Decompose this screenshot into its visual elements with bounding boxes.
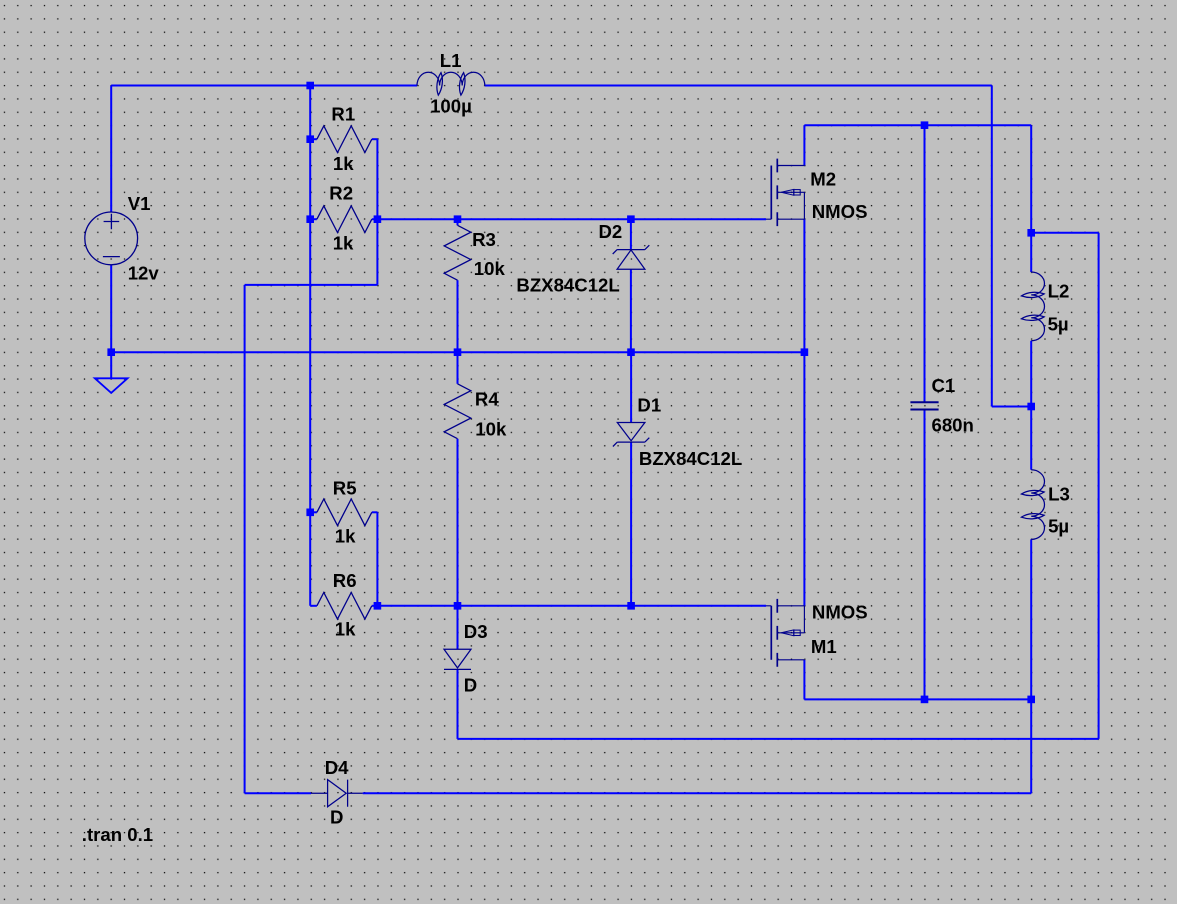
svg-text:D: D	[330, 807, 343, 828]
wire V1 top lead	[110, 86, 112, 213]
wire C1 bottom lead	[924, 410, 926, 700]
wire top rail from V1 to L1	[111, 85, 417, 87]
ground	[95, 378, 128, 393]
diode D4	[311, 780, 363, 807]
wire L3 bottom lead	[1030, 539, 1032, 699]
svg-text:R3: R3	[472, 229, 496, 250]
wire R3 bottom lead	[457, 280, 459, 352]
wire bottom rail M1 to tank	[804, 698, 1031, 700]
svg-text:R1: R1	[331, 103, 355, 124]
svg-text:.tran 0.1: .tran 0.1	[82, 824, 153, 845]
svg-text:D2: D2	[599, 221, 623, 242]
resistor R3	[444, 225, 471, 280]
inductor L2	[1021, 272, 1044, 341]
wire gate row lower R6 to M1 gate	[377, 605, 766, 607]
wire V1 bottom lead	[110, 265, 112, 352]
svg-text:680n: 680n	[932, 415, 974, 436]
svg-text:5µ: 5µ	[1048, 314, 1069, 335]
voltage source V1	[85, 212, 138, 265]
wire R6 left lead	[310, 605, 317, 607]
svg-text:NMOS: NMOS	[812, 201, 868, 222]
wire mid rail	[111, 351, 804, 353]
wire M2 drain riser	[803, 125, 805, 165]
svg-text:M1: M1	[811, 636, 837, 657]
node mid rail D2-D1	[627, 348, 635, 356]
wire D4 row right	[363, 792, 1031, 794]
svg-text:1k: 1k	[333, 233, 354, 254]
wire top rail from L1 to right corner	[485, 85, 992, 87]
svg-text:5µ: 5µ	[1048, 516, 1069, 537]
nmos M1	[766, 599, 804, 667]
inductor L3	[1021, 470, 1044, 540]
wire R4 top lead	[457, 352, 459, 384]
wire feedback right riser	[1098, 233, 1100, 739]
svg-text:L3: L3	[1048, 484, 1070, 505]
wire tank column L2 L3	[1030, 125, 1032, 272]
node mid rail V1	[107, 348, 115, 356]
node D1 bottom	[627, 602, 635, 610]
svg-text:R6: R6	[333, 570, 357, 591]
node R2 right	[374, 215, 382, 223]
svg-text:12v: 12v	[128, 262, 160, 283]
wire R4 bottom lead	[457, 439, 459, 606]
wire R5 left lead	[310, 511, 317, 513]
node C1 top	[921, 121, 929, 129]
svg-text:1k: 1k	[333, 153, 354, 174]
wire D1 bottom lead	[630, 442, 632, 606]
node L2 top	[1027, 229, 1035, 237]
diode D3	[444, 649, 471, 669]
wire M1 source drop	[803, 660, 805, 700]
wire R1 right to R2 right	[376, 139, 378, 219]
node R5 left	[306, 509, 314, 517]
wire M2 drain row	[804, 124, 1031, 126]
resistor R4	[444, 384, 471, 439]
zener diode D1	[613, 423, 649, 447]
svg-text:L1: L1	[440, 50, 462, 71]
node L3 bottom	[1027, 696, 1035, 704]
inductor L1	[417, 72, 485, 95]
nmos M2	[766, 159, 804, 227]
wire D4 riser	[1030, 699, 1032, 793]
svg-text:M2: M2	[810, 168, 836, 189]
svg-text:L2: L2	[1048, 281, 1070, 302]
svg-text:D3: D3	[464, 621, 488, 642]
resistor R1	[317, 126, 372, 153]
wire R1 right lead	[372, 138, 378, 140]
wire ground stub	[110, 352, 112, 378]
wire D1 top lead	[630, 352, 632, 422]
node top rail / bias column	[306, 82, 314, 90]
wire long left drop to D4	[244, 285, 246, 793]
svg-text:D1: D1	[637, 395, 661, 416]
wire R5 right lead	[372, 511, 378, 513]
wire feedback bottom	[458, 738, 1099, 740]
resistor R5	[317, 499, 372, 526]
wire D2 top lead	[630, 219, 632, 249]
svg-text:1k: 1k	[335, 619, 356, 640]
wire L2 to L3	[1030, 341, 1032, 470]
wire feedback top link	[1031, 232, 1098, 234]
node R6 right	[374, 602, 382, 610]
node mid rail M2-M1	[801, 348, 809, 356]
wire gate row upper R2 to M2 gate	[377, 218, 766, 220]
node R3 top	[454, 215, 462, 223]
svg-text:R2: R2	[329, 182, 353, 203]
node mid rail R3-R4	[454, 348, 462, 356]
wire M2 source to rail to M1	[803, 219, 805, 606]
svg-text:D4: D4	[325, 757, 349, 778]
svg-text:D: D	[464, 675, 477, 696]
svg-text:1k: 1k	[335, 525, 356, 546]
svg-text:100µ: 100µ	[430, 96, 472, 117]
node R1 left	[306, 135, 314, 143]
wire R2 right drop	[376, 219, 378, 285]
wire into L2 bottom junction	[992, 406, 1031, 408]
svg-text:C1: C1	[932, 375, 956, 396]
resistor R2	[317, 206, 372, 233]
node R2 left	[306, 215, 314, 223]
svg-text:NMOS: NMOS	[812, 602, 868, 623]
capacitor C1	[910, 402, 938, 409]
wire D3 bottom lead	[457, 669, 459, 739]
wire cross link upper	[245, 284, 378, 286]
wire D3 top lead	[457, 606, 459, 650]
wire R3 top lead	[457, 219, 459, 225]
wire R2 right lead	[372, 218, 378, 220]
wire R6 right lead	[372, 605, 378, 607]
svg-text:10k: 10k	[474, 258, 506, 279]
node D2 top	[627, 215, 635, 223]
svg-text:R4: R4	[475, 389, 499, 410]
svg-text:R5: R5	[333, 478, 357, 499]
wire left bias column R1-R2-R5-R6	[309, 86, 311, 606]
wire D4 row left	[245, 792, 311, 794]
resistor R6	[317, 593, 372, 620]
wire right drop from top rail	[991, 86, 993, 407]
node C1 bottom	[921, 696, 929, 704]
node L2-L3 mid	[1027, 403, 1035, 411]
node D3 top	[454, 602, 462, 610]
wire C1 top lead	[924, 125, 926, 402]
svg-text:BZX84C12L: BZX84C12L	[639, 448, 742, 469]
wire R1 left lead	[310, 138, 317, 140]
zener diode D2	[613, 245, 650, 269]
svg-text:BZX84C12L: BZX84C12L	[516, 274, 619, 295]
svg-text:V1: V1	[128, 193, 151, 214]
wire R2 left lead	[310, 218, 317, 220]
svg-text:10k: 10k	[475, 419, 507, 440]
wire R5 right drop	[376, 512, 378, 606]
wire D2 bottom lead	[630, 269, 632, 352]
